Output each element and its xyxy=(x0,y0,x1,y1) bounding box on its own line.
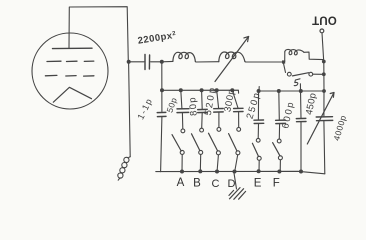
vacuum tube V1 envelope xyxy=(32,33,108,109)
branch A node xyxy=(179,88,183,92)
svg-text:80p: 80p xyxy=(187,96,200,117)
node G bottom xyxy=(299,170,303,174)
svg-text:4000p: 4000p xyxy=(331,114,348,142)
L2 variable arrow xyxy=(215,37,249,82)
svg-text:C: C xyxy=(212,178,220,190)
C9 variable arrow xyxy=(307,93,334,145)
node H (left rail / cap bus) xyxy=(160,88,164,92)
svg-text:D: D xyxy=(228,178,236,190)
wire L2 to L3 node xyxy=(245,61,284,64)
wire OUT to bus xyxy=(322,33,324,61)
svg-text:50p: 50p xyxy=(164,96,178,114)
left rail wire xyxy=(161,62,162,172)
ground hatching xyxy=(229,188,246,200)
switch S7 (shorts L3) xyxy=(283,63,322,76)
svg-text:1-1p: 1-1p xyxy=(135,96,154,121)
V1 grid row 2 dashes xyxy=(45,74,94,77)
svg-text:E: E xyxy=(254,178,262,190)
branch C node xyxy=(215,88,219,92)
V1 plate lead wire to top xyxy=(69,7,128,62)
C1 plates xyxy=(144,55,146,70)
S7 handle squiggle xyxy=(294,79,300,86)
node F (right rail / cap bus) xyxy=(322,89,326,93)
node E (S7 right junction) xyxy=(322,72,326,76)
series capacitor C2 in left rail xyxy=(157,111,166,113)
svg-text:2200px2: 2200px2 xyxy=(137,30,177,47)
wire E overshoot xyxy=(258,87,260,91)
node A (plate coupling junction) xyxy=(127,60,131,64)
RF choke coil (bottom) xyxy=(118,157,130,181)
capacitor C8 (600p) xyxy=(276,91,286,139)
C9 lower lead xyxy=(323,121,326,174)
capacitor C1 2200p left lead xyxy=(131,61,144,63)
V1 grid row 1 dashes xyxy=(47,60,94,62)
inductor L1 xyxy=(162,52,196,62)
switch SD xyxy=(229,127,241,172)
capacitor C10 (450p fixed) xyxy=(296,84,306,172)
svg-text:B: B xyxy=(193,178,201,190)
capacitor C3 (50p) xyxy=(177,90,189,129)
inductor L3 xyxy=(285,49,324,61)
capacitor C4 (80p) xyxy=(198,90,208,128)
svg-text:450p: 450p xyxy=(304,92,319,116)
switch SE xyxy=(252,138,261,172)
OUT terminal xyxy=(320,29,324,33)
branch D node xyxy=(230,88,234,92)
switch SB xyxy=(192,128,204,172)
switch SA xyxy=(172,129,185,172)
svg-text:A: A xyxy=(177,177,185,189)
switch SC xyxy=(209,127,221,172)
branch B node xyxy=(200,88,204,92)
capacitor C7 (250p) xyxy=(254,91,264,138)
svg-text:250p: 250p xyxy=(245,90,263,120)
right rail wire xyxy=(323,62,325,117)
branch F node xyxy=(277,89,281,93)
branch G node xyxy=(299,89,303,93)
wire L1-L2 xyxy=(195,60,219,63)
capacitor selection top bus xyxy=(162,90,239,93)
node D (right rail top junction) xyxy=(322,60,326,64)
V1 cathode vee xyxy=(53,87,91,102)
svg-text:F: F xyxy=(273,178,280,190)
bottom bus xyxy=(156,171,325,174)
node C (L3 left junction) xyxy=(282,60,285,63)
inductor L2 (variable) xyxy=(219,52,245,62)
variable capacitor C9 plates xyxy=(316,116,332,118)
capacitor C6 (300p) xyxy=(232,90,243,127)
C1 right lead xyxy=(151,61,162,63)
svg-text:600p: 600p xyxy=(280,100,297,130)
branch E node xyxy=(257,89,261,93)
node B (tank input junction) xyxy=(160,60,164,64)
bottom bus node dots xyxy=(180,170,184,174)
ground stub xyxy=(234,173,237,189)
V1 plate bar xyxy=(53,47,93,49)
capacitor C5 (520p) xyxy=(214,90,224,127)
svg-text:OUT: OUT xyxy=(312,13,337,25)
wire plate RF choke feed xyxy=(129,63,131,157)
switch SF xyxy=(273,139,283,172)
